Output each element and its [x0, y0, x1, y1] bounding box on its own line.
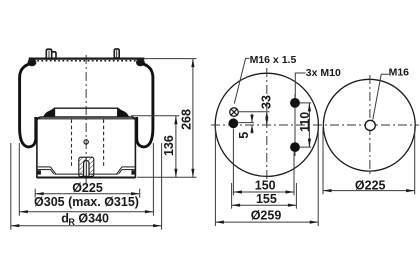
dim 33 — [239, 111, 270, 113]
bumper block hatched — [79, 157, 94, 176]
leader M16 x 1.5 — [234, 58, 249, 103]
bolt M10 lower right — [290, 142, 300, 152]
dim dR Ø340 — [10, 143, 12, 230]
top plate — [29, 57, 145, 59]
dim 110 — [300, 102, 311, 104]
svg-text:155: 155 — [256, 192, 277, 206]
hidden lines inside piston — [71, 120, 73, 168]
plate circle — [215, 73, 318, 176]
centerline (left view) — [85, 55, 87, 183]
dim 5 — [239, 122, 254, 124]
svg-text:Ø305 (max. Ø315): Ø305 (max. Ø315) — [34, 195, 139, 209]
svg-text:110: 110 — [298, 112, 312, 132]
top plate knurl dots — [33, 60, 140, 62]
bellows outline right — [137, 63, 153, 147]
ext lines 150/155 — [232, 129, 234, 196]
bolt M10 left — [229, 118, 239, 128]
extension line baseline — [137, 176, 197, 178]
extension line top plate to 268 — [145, 58, 197, 60]
leader 3x M10 — [295, 73, 305, 98]
dim Ø259 — [214, 126, 216, 226]
air fitting M16x1.5 symbol — [230, 108, 239, 117]
bead right — [136, 59, 145, 67]
piston centre hole — [84, 140, 88, 144]
central hole M16 — [365, 120, 375, 130]
centerline vertical (middle) — [266, 68, 268, 181]
stud right — [114, 49, 121, 59]
extension line piston rim to 136 — [131, 115, 179, 117]
piston circle — [323, 79, 415, 171]
svg-text:136: 136 — [162, 135, 176, 156]
bellows outline left — [20, 63, 36, 147]
dim Ø225 (right) — [322, 127, 324, 194]
centerline horizontal (middle + right) — [211, 124, 419, 126]
dim 268 — [192, 59, 194, 178]
dim 136 — [175, 116, 177, 178]
svg-text:M16 x 1.5: M16 x 1.5 — [250, 54, 297, 66]
dim Ø225 (left) — [34, 189, 36, 198]
svg-text:268: 268 — [179, 109, 193, 130]
dim Ø305 (max. Ø315) — [18, 143, 20, 216]
bumper inner cylinder — [84, 161, 89, 177]
svg-text:Ø225: Ø225 — [72, 181, 103, 195]
flange channel right — [117, 167, 135, 174]
svg-text:3x M10: 3x M10 — [306, 67, 341, 79]
dim 150 — [233, 191, 294, 193]
piston rim inner line — [38, 118, 135, 120]
bolt centerline vertical right pair — [294, 94, 296, 156]
piston bell — [37, 117, 135, 178]
svg-text:Ø225: Ø225 — [355, 179, 386, 193]
stud left (air fitting) — [45, 49, 56, 60]
bolt M10 upper right — [290, 98, 300, 108]
bead left — [28, 59, 37, 67]
svg-text:M16: M16 — [389, 67, 410, 79]
rubber shoulder left — [43, 110, 54, 118]
svg-text:Ø259: Ø259 — [251, 209, 282, 223]
svg-text:33: 33 — [260, 95, 274, 109]
centerline vertical (right) — [369, 75, 371, 176]
rubber shoulder right — [118, 110, 130, 118]
svg-text:150: 150 — [255, 178, 276, 192]
svg-text:R: R — [68, 217, 75, 227]
svg-text:Ø340: Ø340 — [78, 211, 109, 225]
leader M16 — [373, 74, 389, 119]
flange channel left — [38, 167, 56, 174]
svg-text:5: 5 — [237, 132, 251, 139]
piston bottom plate — [55, 173, 118, 175]
piston cap — [47, 108, 125, 113]
dim 155 — [232, 204, 297, 206]
